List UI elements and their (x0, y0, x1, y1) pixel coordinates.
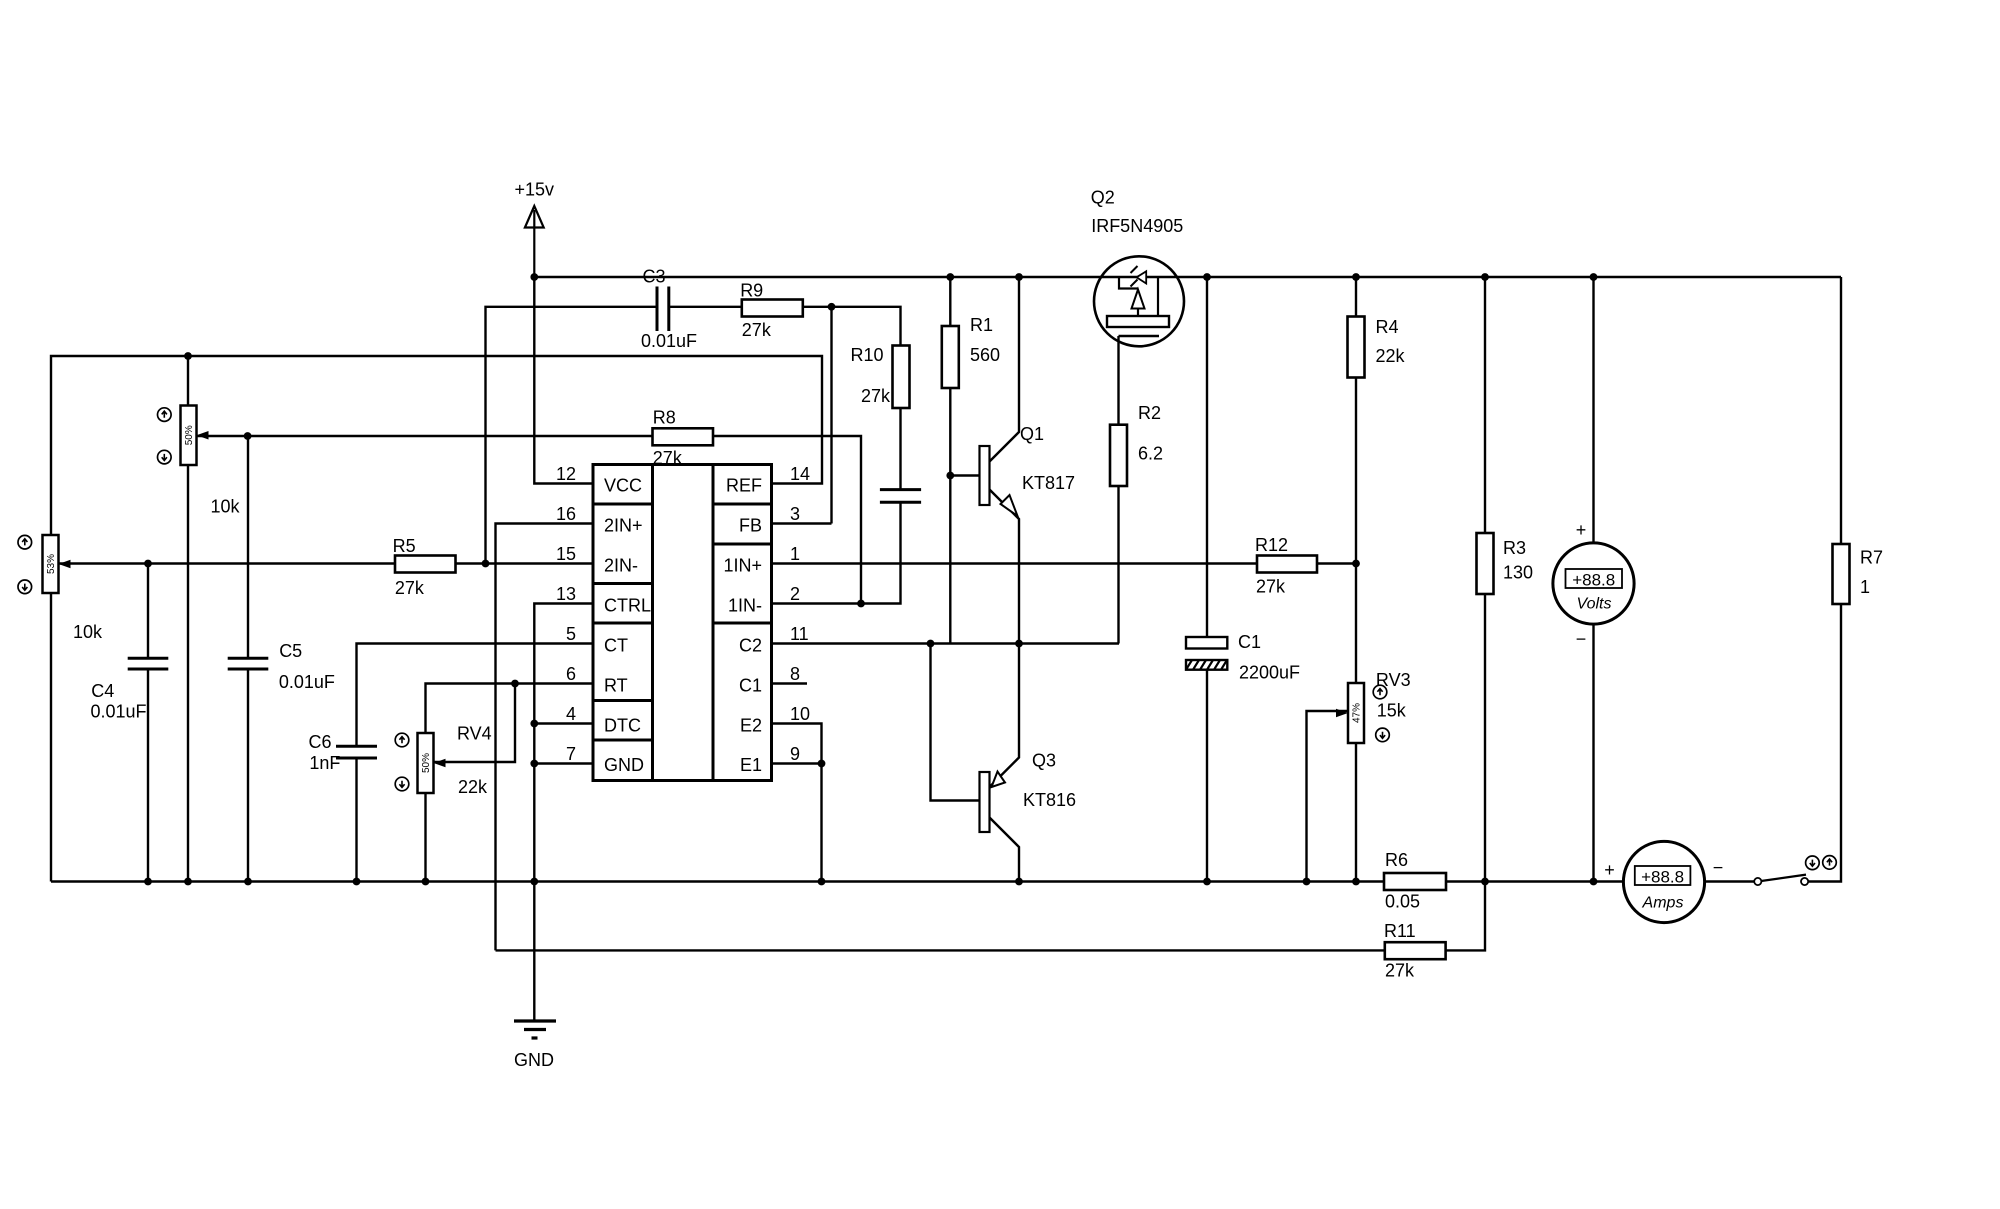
svg-text:R1: R1 (970, 315, 993, 335)
svg-text:0.01uF: 0.01uF (641, 331, 697, 351)
svg-text:27k: 27k (653, 448, 683, 468)
adjust arrow (1373, 685, 1387, 699)
svg-text:Amps: Amps (1642, 895, 1684, 912)
svg-text:−: − (1576, 629, 1587, 649)
junction (144, 878, 152, 886)
wire C3 to R9 (669, 306, 742, 308)
svg-text:53%: 53% (46, 554, 57, 574)
wire pot top drop (187, 356, 189, 406)
svg-text:50%: 50% (184, 425, 195, 445)
svg-text:GND: GND (514, 1050, 554, 1070)
junction (1352, 273, 1360, 281)
svg-text:E2: E2 (740, 716, 762, 736)
wire 53% pot bottom to ground bus (50, 593, 52, 882)
wire pin9 E1 stub (772, 762, 822, 764)
svg-text:−: − (1713, 858, 1724, 878)
junction (818, 878, 826, 886)
svg-text:27k: 27k (1385, 961, 1415, 981)
junction (818, 760, 826, 768)
wire pin10 E2 to ground bus (772, 724, 822, 882)
svg-text:REF: REF (726, 476, 762, 496)
potentiometer RV3 15k (1336, 683, 1364, 743)
junction (530, 273, 538, 281)
svg-text:C2: C2 (739, 636, 762, 656)
wire ground stem (533, 882, 535, 1022)
svg-text:C6: C6 (309, 732, 332, 752)
wire R10 to cap (899, 408, 901, 490)
wire voltmeter top (1592, 277, 1594, 543)
wire pin6 RT to RV4 (426, 684, 594, 734)
svg-text:R2: R2 (1138, 403, 1161, 423)
svg-text:7: 7 (566, 744, 576, 764)
wire ground bus (51, 880, 1384, 882)
junction (927, 640, 935, 648)
resistor R12 (1257, 556, 1317, 573)
capacitor C1 2200uF (1186, 637, 1227, 670)
ground (514, 1021, 556, 1070)
wire R1 top (949, 277, 951, 326)
svg-text:0.05: 0.05 (1385, 892, 1420, 912)
svg-text:KT817: KT817 (1022, 473, 1075, 493)
wire R8 right to pin2 node (713, 436, 861, 604)
svg-text:R5: R5 (393, 536, 416, 556)
capacitor C5 (228, 658, 269, 669)
op-amp U1 TL494 PWM controller body (593, 465, 772, 781)
svg-text:2IN+: 2IN+ (604, 516, 643, 536)
svg-text:12: 12 (556, 464, 576, 484)
junction (946, 472, 954, 480)
wire R11 right riser (1446, 882, 1485, 951)
junction (1481, 273, 1489, 281)
svg-text:9: 9 (790, 744, 800, 764)
junction (184, 878, 192, 886)
wire pin11 C2 (772, 642, 1119, 644)
wire R4 top (1355, 277, 1357, 317)
junction (244, 432, 252, 440)
svg-text:RV4: RV4 (457, 724, 492, 744)
wire pin5 CT to C6 (357, 644, 594, 748)
resistor R4 (1348, 317, 1365, 378)
svg-text:1IN-: 1IN- (728, 596, 762, 616)
svg-text:GND: GND (604, 755, 644, 775)
wire C4 top (147, 564, 149, 659)
svg-text:3: 3 (790, 504, 800, 524)
svg-text:1: 1 (1860, 577, 1870, 597)
svg-text:IRF5N4905: IRF5N4905 (1091, 216, 1183, 236)
ammeter (1604, 841, 1723, 922)
svg-text:560: 560 (970, 345, 1000, 365)
junction (946, 273, 954, 281)
svg-text:27k: 27k (395, 578, 425, 598)
junction (482, 560, 490, 568)
svg-text:0.01uF: 0.01uF (91, 702, 147, 722)
svg-text:CT: CT (604, 636, 628, 656)
junction (144, 560, 152, 568)
svg-text:27k: 27k (742, 320, 772, 340)
svg-text:Volts: Volts (1577, 596, 1612, 613)
wire switch to R7 (1808, 604, 1841, 882)
wire Q1 emitter / Q3 collector (990, 490, 1020, 788)
wire pin13 CTRL to ground (534, 604, 593, 882)
svg-text:E1: E1 (740, 755, 762, 775)
wire R4 to RV3 (1355, 378, 1357, 684)
junction (1481, 878, 1489, 886)
svg-text:2200uF: 2200uF (1239, 663, 1300, 683)
wire RV4 wiper to pin6 (434, 684, 515, 763)
svg-text:+15v: +15v (515, 180, 555, 200)
svg-text:2: 2 (790, 584, 800, 604)
svg-text:C1: C1 (1238, 632, 1261, 652)
svg-text:R6: R6 (1385, 850, 1408, 870)
svg-text:4: 4 (566, 704, 576, 724)
svg-text:KT816: KT816 (1023, 790, 1076, 810)
resistor R8 (653, 428, 714, 445)
svg-text:C1: C1 (739, 676, 762, 696)
resistor R2 (1110, 425, 1127, 486)
svg-text:11: 11 (790, 624, 809, 644)
svg-text:RV3: RV3 (1376, 670, 1411, 690)
junction (353, 878, 361, 886)
junction (1590, 273, 1598, 281)
svg-text:27k: 27k (1256, 577, 1286, 597)
wire 50% pot bottom (187, 465, 189, 882)
svg-text:C4: C4 (91, 681, 114, 701)
svg-text:DTC: DTC (604, 716, 641, 736)
svg-text:14: 14 (790, 464, 810, 484)
svg-text:R8: R8 (653, 407, 676, 427)
adjust arrow (158, 450, 172, 464)
junction (1352, 878, 1360, 886)
voltmeter (1553, 520, 1634, 649)
svg-text:C5: C5 (279, 641, 302, 661)
svg-text:+88.8: +88.8 (1641, 867, 1684, 886)
wire R1 bottom to C2 node (949, 388, 951, 644)
wire pin16 riser down (496, 524, 594, 951)
switch arrow up (1823, 856, 1837, 870)
switch (1754, 875, 1808, 886)
resistor R6 (1384, 873, 1446, 890)
wire pin4 DTC stub (534, 722, 593, 724)
wire C3 left to pin15 node (486, 307, 658, 564)
resistor R3 (1477, 533, 1494, 594)
svg-text:10k: 10k (73, 622, 103, 642)
wire R6 to ammeter (1446, 880, 1623, 882)
pin numbers right side (790, 464, 810, 764)
wire pin1 1IN+ to R12 (772, 562, 1257, 564)
svg-text:R12: R12 (1255, 535, 1288, 555)
wire ammeter to switch (1705, 880, 1755, 882)
resistor R9 (742, 300, 803, 317)
wire pin8 stub (772, 682, 807, 684)
wire C4 bottom (147, 669, 149, 882)
wire 53% wiper to R5 (59, 562, 396, 564)
svg-text:+: + (1576, 520, 1587, 540)
switch arrow down (1806, 856, 1820, 870)
svg-text:+88.8: +88.8 (1572, 570, 1615, 589)
junction (857, 600, 865, 608)
svg-text:130: 130 (1503, 563, 1533, 583)
wire RV4 bottom (424, 793, 426, 882)
adjust arrow (158, 408, 172, 422)
svg-text:6: 6 (566, 664, 576, 684)
svg-text:FB: FB (739, 516, 762, 536)
junction (530, 878, 538, 886)
wire Q2 gate to R2 (1117, 336, 1119, 425)
wire pin7 GND stub (534, 762, 593, 764)
transistor Q1 KT817 (980, 446, 1018, 516)
junction (244, 878, 252, 886)
wire cap to pin2 (772, 502, 901, 603)
wire +15v top bus (534, 276, 1841, 278)
wire R3 bottom (1484, 594, 1486, 882)
wire R3 top (1484, 277, 1486, 533)
svg-text:C3: C3 (643, 267, 666, 287)
svg-text:2IN-: 2IN- (604, 556, 638, 576)
wire pin3 FB riser (772, 307, 832, 524)
svg-text:Q2: Q2 (1091, 188, 1115, 208)
junction (1203, 273, 1211, 281)
junction (828, 303, 836, 311)
svg-text:Q1: Q1 (1020, 424, 1044, 444)
svg-text:47%: 47% (1352, 703, 1363, 723)
junction (1015, 878, 1023, 886)
svg-text:1IN+: 1IN+ (723, 556, 762, 576)
power symbol +15v (515, 180, 555, 278)
svg-text:Q3: Q3 (1032, 751, 1056, 771)
junction (1303, 878, 1311, 886)
adjust arrow (395, 777, 409, 791)
svg-text:13: 13 (556, 584, 576, 604)
svg-text:+: + (1604, 860, 1615, 880)
resistor R5 (395, 556, 456, 573)
svg-text:8: 8 (790, 664, 800, 684)
svg-text:22k: 22k (1376, 346, 1406, 366)
svg-text:VCC: VCC (604, 476, 642, 496)
wire R5 to pin15 (456, 562, 594, 564)
junction (1015, 273, 1023, 281)
wire Q3 base (931, 644, 980, 801)
resistor R7 (1833, 544, 1850, 604)
wire pin12 VCC to +15v (534, 277, 593, 484)
transistor Q3 KT816 (980, 772, 1006, 833)
junction (1203, 878, 1211, 886)
wire C1 top riser (1206, 277, 1208, 637)
wire voltmeter bottom (1592, 624, 1594, 881)
wire 50% wiper to R8 (198, 435, 655, 437)
capacitor C4 (128, 658, 169, 669)
svg-text:27k: 27k (861, 386, 891, 406)
junction (184, 352, 192, 360)
svg-text:15: 15 (556, 544, 576, 564)
wire C6 bottom (355, 760, 357, 882)
capacitor (R10 filter) (880, 490, 921, 503)
wire Q1 base (950, 474, 979, 476)
adjust arrow (395, 733, 409, 747)
junction (530, 760, 538, 768)
svg-text:22k: 22k (458, 777, 488, 797)
svg-text:0.01uF: 0.01uF (279, 672, 335, 692)
wire Q1 collector (990, 277, 1020, 462)
pin numbers left side (556, 464, 576, 764)
wire Q3 emitter (990, 818, 1020, 882)
resistor R1 (942, 326, 959, 388)
resistor R10 (893, 346, 910, 409)
junction (422, 878, 430, 886)
wire RV3 wiper to ground bus (1307, 711, 1348, 882)
wire pin14 REF to divider pots (51, 356, 822, 535)
svg-text:R10: R10 (851, 345, 884, 365)
wire R9 to R10 (802, 307, 900, 346)
wire to R2 bottom (1117, 486, 1119, 644)
junction (530, 720, 538, 728)
capacitor C3 (657, 287, 669, 332)
svg-text:1: 1 (790, 544, 800, 564)
adjust arrow (18, 580, 32, 594)
svg-text:CTRL: CTRL (604, 596, 651, 616)
potentiometer 10k (53%) (43, 535, 71, 593)
wire R7 top (1840, 277, 1842, 544)
svg-text:10: 10 (790, 704, 810, 724)
adjust arrow (1376, 728, 1390, 742)
potentiometer 10k (50%) (181, 406, 209, 466)
transistor Q2 IRF5N4905 MOSFET (1094, 256, 1184, 346)
resistor R11 (1385, 942, 1446, 959)
adjust arrow (18, 535, 32, 549)
wire RV3 bottom (1355, 743, 1357, 882)
wire C5 top (247, 436, 249, 658)
svg-text:50%: 50% (421, 753, 432, 773)
junction (511, 680, 519, 688)
junction (1352, 560, 1360, 568)
svg-text:R9: R9 (740, 280, 763, 300)
svg-text:6.2: 6.2 (1138, 444, 1163, 464)
capacitor C6 (336, 746, 377, 758)
wire C5 bottom (247, 669, 249, 882)
svg-text:15k: 15k (1377, 701, 1407, 721)
wire R12 right (1317, 562, 1356, 564)
svg-text:16: 16 (556, 504, 576, 524)
svg-text:5: 5 (566, 624, 576, 644)
svg-text:10k: 10k (211, 497, 241, 517)
wire to R11 (496, 949, 1385, 951)
svg-text:R3: R3 (1503, 538, 1526, 558)
svg-text:R4: R4 (1376, 317, 1399, 337)
svg-text:R7: R7 (1860, 548, 1883, 568)
junction (1015, 640, 1023, 648)
svg-text:R11: R11 (1384, 921, 1416, 941)
wire C1 bottom (1206, 670, 1208, 882)
svg-text:1nF: 1nF (309, 753, 340, 773)
junction (1590, 878, 1598, 886)
svg-text:RT: RT (604, 676, 628, 696)
potentiometer RV4 22k (418, 733, 446, 793)
